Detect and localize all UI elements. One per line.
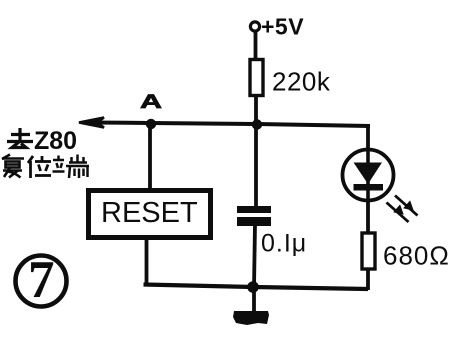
svg-text:Z80: Z80: [34, 127, 77, 155]
svg-text:220k: 220k: [272, 67, 331, 97]
svg-text:A: A: [140, 92, 162, 113]
svg-text:0.Iμ: 0.Iμ: [261, 230, 307, 258]
svg-text:+5V: +5V: [261, 14, 304, 40]
svg-text:680Ω: 680Ω: [383, 241, 450, 271]
svg-text:RESET: RESET: [101, 197, 198, 229]
svg-text:7: 7: [28, 251, 55, 309]
